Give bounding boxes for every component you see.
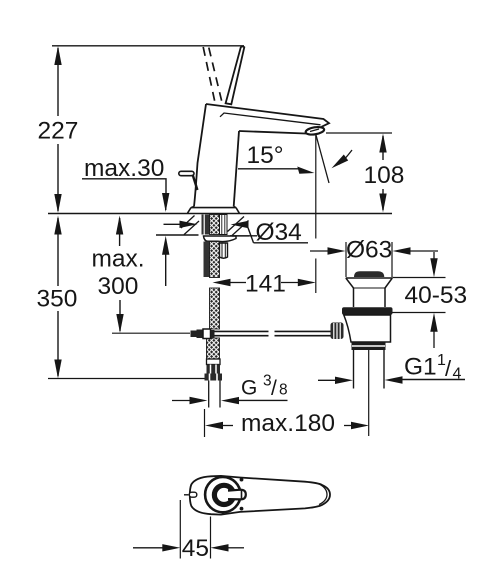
counter hatching left xyxy=(181,216,199,235)
dimension 40-53 xyxy=(393,252,468,348)
drain body xyxy=(344,315,391,342)
svg-text:108: 108 xyxy=(364,162,405,189)
hose side cylinder xyxy=(220,243,228,258)
dimension 141 xyxy=(213,271,316,298)
top view: cartridge circle xyxy=(205,477,240,512)
extension line max.300 level xyxy=(112,332,190,334)
top view: left pin xyxy=(184,492,197,497)
G1 1/4 arrow left xyxy=(318,377,353,384)
label Ø34 xyxy=(247,219,308,246)
svg-text:40-53: 40-53 xyxy=(405,282,468,309)
label Ø63 xyxy=(310,237,438,264)
15 deg slant line xyxy=(316,135,329,183)
connection tube G3/8 xyxy=(209,381,220,408)
label G1 1/4 xyxy=(400,352,465,383)
top view: screw dots xyxy=(240,478,244,511)
label G3/8 xyxy=(239,373,288,401)
svg-text:15°: 15° xyxy=(247,142,284,169)
svg-text:max.: max. xyxy=(92,246,145,273)
drain flange xyxy=(346,278,393,307)
drain lock nut xyxy=(352,343,386,351)
hose braid lower segment xyxy=(207,288,220,359)
knurled rod knob xyxy=(331,323,344,340)
drain tailpipe xyxy=(354,350,385,389)
countertop bottom line right xyxy=(230,235,257,237)
G3/8 arrow right xyxy=(221,397,239,404)
svg-text:8: 8 xyxy=(279,382,288,399)
15 deg arc arrow xyxy=(332,150,353,168)
svg-text:max.30: max.30 xyxy=(84,155,164,182)
svg-text:45: 45 xyxy=(182,535,209,562)
pop-up plug cap xyxy=(354,271,384,277)
svg-text:227: 227 xyxy=(38,118,79,145)
Ø63 extension lines xyxy=(346,242,392,277)
lever handle (dashed alternate position) xyxy=(203,47,221,101)
countertop bottom line left xyxy=(156,234,199,236)
svg-text:/: / xyxy=(445,356,452,381)
G3/8 hex nut xyxy=(205,374,223,381)
side joystick lever xyxy=(179,171,198,190)
faucet body outline xyxy=(194,104,329,207)
extension line hose end (350 bottom) xyxy=(48,378,205,380)
max.30 lower arrow (counter underside) xyxy=(162,236,169,286)
countertop top line xyxy=(48,213,392,215)
svg-text:Ø63: Ø63 xyxy=(346,237,392,264)
svg-text:Ø34: Ø34 xyxy=(256,219,302,246)
dimension 350 xyxy=(37,216,78,379)
dimension 108 xyxy=(364,134,405,213)
top view: joystick tab xyxy=(228,490,246,500)
hose ferrule xyxy=(207,359,221,374)
extension line faucet axis (max.180 left) xyxy=(204,409,206,437)
extension line spout height xyxy=(326,132,392,134)
lever handle (solid position) xyxy=(226,46,245,104)
top view: handle paddle outline xyxy=(190,476,330,515)
hose braid upper segment xyxy=(210,242,220,278)
dimension 227 xyxy=(38,46,79,213)
dimension 45 xyxy=(133,500,244,562)
svg-text:141: 141 xyxy=(245,271,286,298)
drain seal ring xyxy=(342,307,393,314)
top view: inner ring xyxy=(214,485,233,504)
faucet base skirt xyxy=(188,207,240,214)
pop-up rod tee fitting xyxy=(191,329,215,339)
svg-text:350: 350 xyxy=(37,286,78,313)
svg-text:300: 300 xyxy=(98,273,139,300)
Ø34 arrow right xyxy=(231,221,249,228)
outlet centerline dashed xyxy=(315,134,317,293)
counter hatching right xyxy=(228,217,249,236)
Ø34 arrow left xyxy=(164,221,198,228)
top height reference line xyxy=(52,45,244,47)
mounting washer below counter xyxy=(204,236,250,242)
label max.30 with leader xyxy=(82,155,169,212)
dimension max.180 xyxy=(205,410,369,437)
drain centerline / max.180 right extension xyxy=(368,350,370,436)
G1 1/4 arrow right xyxy=(385,376,403,383)
horizontal pop-up rod xyxy=(215,331,331,335)
dimension max.300 xyxy=(92,216,145,334)
svg-text:/: / xyxy=(271,377,277,400)
threaded stud below washer xyxy=(204,242,210,278)
shank through counter xyxy=(202,215,228,235)
G3/8 arrow left xyxy=(172,397,208,404)
svg-text:G1: G1 xyxy=(404,354,437,381)
svg-text:G: G xyxy=(241,377,257,400)
svg-text:max.180: max.180 xyxy=(241,410,335,437)
spout outlet (aerator) xyxy=(305,126,324,136)
angle 15 deg label xyxy=(238,142,315,174)
